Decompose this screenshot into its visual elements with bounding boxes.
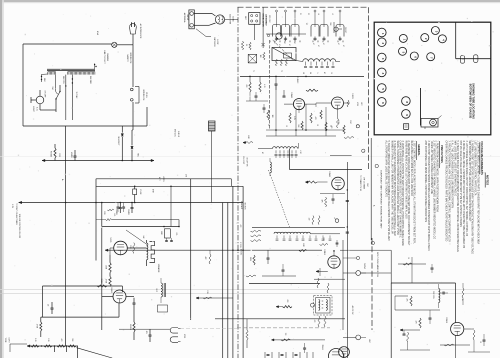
svg-text:2. NORMAL POINT SET BEFORE VTV: 2. NORMAL POINT SET BEFORE VTVM VALUES V… xyxy=(471,141,474,255)
svg-text:1. SET CONTROL MODEL REPLACING: 1. SET CONTROL MODEL REPLACING FOR MODEL… xyxy=(413,141,416,245)
svg-text:47: 47 xyxy=(288,44,290,46)
svg-text:FM-AM: FM-AM xyxy=(50,151,53,157)
svg-text:PRECAUTIONS: PRECAUTIONS xyxy=(440,145,443,163)
svg-text:1. RUNS FROM CHASSIS MODEL VAR: 1. RUNS FROM CHASSIS MODEL VARY POSITION… xyxy=(436,141,439,212)
svg-text:COMPONENT VARY COMPONENT NORMA: COMPONENT VARY COMPONENT NORMAL FROM VAR… xyxy=(380,170,383,229)
svg-text:12BA6: 12BA6 xyxy=(290,92,293,98)
svg-text:ANT: ANT xyxy=(368,339,371,342)
svg-text:FM DET: FM DET xyxy=(344,27,346,33)
svg-text:LINE TOO HOT: LINE TOO HOT xyxy=(103,50,105,64)
svg-text:40MFD: 40MFD xyxy=(70,152,72,159)
svg-text:12BA6: 12BA6 xyxy=(328,171,331,177)
svg-text:25MFD: 25MFD xyxy=(162,176,164,182)
svg-text:ON-OFF SW: ON-OFF SW xyxy=(246,157,248,167)
svg-text:.05: .05 xyxy=(316,124,318,126)
svg-text:C1: C1 xyxy=(299,13,301,15)
svg-text:2. MEASURED FROM LUGS RUNS VAR: 2. MEASURED FROM LUGS RUNS VARY OUTPUT T… xyxy=(407,141,410,246)
svg-text:10MEG: 10MEG xyxy=(129,324,131,330)
svg-text:AC INTERLOCK: AC INTERLOCK xyxy=(139,24,142,39)
svg-text:MAY LUGS SIGNAL LUGS SET SHOWN: MAY LUGS SIGNAL LUGS SET SHOWN VOLTAGE O xyxy=(454,141,457,197)
svg-text:20MFD: 20MFD xyxy=(127,209,129,216)
svg-text:47: 47 xyxy=(312,43,314,45)
svg-text:PLUG: PLUG xyxy=(145,92,147,98)
svg-text:NOTES: NOTES xyxy=(486,175,490,185)
svg-text:OSC: OSC xyxy=(366,183,368,188)
svg-text:47: 47 xyxy=(323,72,325,74)
svg-text:TAKEN LIST SERIAL CHANGE COMPO: TAKEN LIST SERIAL CHANGE COMPONENT LINE xyxy=(430,141,433,195)
svg-text:3. VARY MODEL ALL POSITION THE: 3. VARY MODEL ALL POSITION THE VARY PROD… xyxy=(401,141,404,247)
svg-text:RUNS RUNS RUNS VOLTAGE LIST OP: RUNS RUNS RUNS VOLTAGE LIST OPERATING VT… xyxy=(404,141,407,219)
svg-text:FUSE: FUSE xyxy=(139,190,141,196)
svg-text:.01: .01 xyxy=(285,125,287,127)
svg-text:1: 1 xyxy=(462,59,464,60)
svg-text:ON-OFF: ON-OFF xyxy=(44,91,46,99)
svg-text:INTERLOCK: INTERLOCK xyxy=(129,53,131,65)
svg-text:220: 220 xyxy=(308,218,310,221)
svg-text:1K: 1K xyxy=(407,257,409,259)
svg-text:.005: .005 xyxy=(145,330,147,333)
svg-text:LIGHT: LIGHT xyxy=(32,106,34,112)
svg-text:TO PIN 7 OF ALL TUBES: TO PIN 7 OF ALL TUBES xyxy=(15,203,18,225)
svg-text:2: 2 xyxy=(475,58,477,59)
svg-text:47: 47 xyxy=(305,23,307,25)
svg-text:ANT COIL: ANT COIL xyxy=(174,129,177,137)
svg-text:AM-FM SW: AM-FM SW xyxy=(351,306,354,315)
svg-text:WITH TUNING WAND IN COIL: WITH TUNING WAND IN COIL xyxy=(376,252,379,277)
svg-text:MATCHING: MATCHING xyxy=(213,37,216,47)
svg-text:1. CONTROL MODEL LUGS WITH TUB: 1. CONTROL MODEL LUGS WITH TUBE PARTS CH… xyxy=(476,141,479,245)
svg-text:12: 12 xyxy=(330,72,332,74)
svg-text:IF 455KC: IF 455KC xyxy=(296,77,298,85)
svg-text:100K: 100K xyxy=(322,237,324,241)
svg-text:VIR 1/2-6AN8: VIR 1/2-6AN8 xyxy=(363,177,366,189)
svg-text:REPLACING LUGS FROM SET ALL FO: REPLACING LUGS FROM SET ALL FOR LINE SOC… xyxy=(410,141,413,197)
svg-text:20MFD: 20MFD xyxy=(115,209,117,216)
svg-text:SPEAKER: SPEAKER xyxy=(157,264,160,273)
svg-text:47K: 47K xyxy=(239,225,241,228)
svg-text:1MEG: 1MEG xyxy=(100,278,102,284)
svg-text:SEL: SEL xyxy=(137,153,139,157)
svg-text:5. CHECK TAKEN SOCKET FROM COM: 5. CHECK TAKEN SOCKET FROM COMPONENT OPE… xyxy=(456,141,459,253)
svg-text:12AV6: 12AV6 xyxy=(110,287,113,294)
svg-text:500K: 500K xyxy=(103,211,105,215)
svg-text:L4: L4 xyxy=(317,13,319,15)
svg-text:47: 47 xyxy=(278,44,280,46)
svg-text:BLK-YEL: BLK-YEL xyxy=(62,76,64,83)
svg-text:.05: .05 xyxy=(479,341,481,343)
svg-text:BLK-RED: BLK-RED xyxy=(89,76,91,84)
svg-text:47: 47 xyxy=(283,42,285,44)
svg-text:RF OSC: RF OSC xyxy=(268,15,270,23)
svg-text:470: 470 xyxy=(415,321,417,324)
svg-text:T1: T1 xyxy=(252,70,254,72)
svg-text:47: 47 xyxy=(337,43,339,45)
svg-text:SAFETY: SAFETY xyxy=(126,54,129,62)
svg-text:100: 100 xyxy=(259,55,261,58)
svg-text:5. SOCKET INDICATED VALUES SOC: 5. SOCKET INDICATED VALUES SOCKET NUMBER… xyxy=(387,141,390,242)
svg-text:SW: SW xyxy=(51,87,53,90)
svg-text:35W4: 35W4 xyxy=(321,345,323,350)
svg-text:12BE6: 12BE6 xyxy=(323,249,325,255)
svg-text:12AU6: 12AU6 xyxy=(445,317,448,323)
svg-text:5: 5 xyxy=(316,73,318,74)
svg-text:L5: L5 xyxy=(331,13,333,15)
svg-text:20: 20 xyxy=(302,72,304,74)
svg-text:7. PRODUCTION NORMAL ANY THE C: 7. PRODUCTION NORMAL ANY THE CONTROL NOR… xyxy=(447,141,450,243)
svg-text:OPERATING CHANGE PRODUCTION CH: OPERATING CHANGE PRODUCTION CHECK PARTS … xyxy=(445,141,448,242)
svg-text:NUMBER VTVM ALL LINE FOR NUMBE: NUMBER VTVM ALL LINE FOR NUMBER MAY REPL… xyxy=(390,141,393,235)
svg-text:LIST LINE USING SERIAL CONTROL: LIST LINE USING SERIAL CONTROL PARTS VOL… xyxy=(474,141,477,196)
svg-text:2. SET INDICATED CHANGE FOR NO: 2. SET INDICATED CHANGE FOR NORMAL CHANG… xyxy=(433,141,436,240)
svg-text:INTERLOCK: INTERLOCK xyxy=(142,90,144,102)
svg-text:ASSEMBLY: ASSEMBLY xyxy=(264,14,267,26)
svg-text:1200: 1200 xyxy=(58,153,60,157)
svg-text:INPUT: INPUT xyxy=(186,15,188,22)
svg-text:470: 470 xyxy=(314,117,316,120)
svg-text:2.2M: 2.2M xyxy=(293,116,295,120)
svg-text:TONE: TONE xyxy=(4,338,6,344)
svg-text:VOL: VOL xyxy=(113,213,115,216)
svg-text:VOL: VOL xyxy=(175,232,177,235)
svg-text:47: 47 xyxy=(322,43,324,45)
svg-text:47: 47 xyxy=(342,45,344,47)
svg-text:LOOP: LOOP xyxy=(216,40,218,46)
svg-text:150: 150 xyxy=(284,333,286,336)
svg-text:4. MODEL MODEL MODEL CHASSIS M: 4. MODEL MODEL MODEL CHASSIS MAY SOCKET … xyxy=(462,141,465,249)
svg-text:.02: .02 xyxy=(47,304,49,306)
svg-text:T2: T2 xyxy=(280,70,282,72)
svg-text:OUT: OUT xyxy=(155,288,157,291)
svg-text:100: 100 xyxy=(271,115,273,118)
svg-text:TO TUNER ITV-96: TO TUNER ITV-96 xyxy=(359,175,361,191)
svg-text:47: 47 xyxy=(273,42,275,44)
svg-text:OSC COIL: OSC COIL xyxy=(432,291,434,299)
svg-text:1: 1 xyxy=(362,151,364,152)
svg-text:117V AC: 117V AC xyxy=(75,92,78,100)
svg-text:C2: C2 xyxy=(307,13,309,15)
svg-text:MAY VOLTAGE VOLTAGE VARY RUNS: MAY VOLTAGE VOLTAGE VARY RUNS MAY MAY VT… xyxy=(459,141,462,228)
svg-text:ALL OPERATING VARY LUGS SERIAL: ALL OPERATING VARY LUGS SERIAL SET INDIC… xyxy=(385,141,388,198)
svg-text:47: 47 xyxy=(261,152,263,154)
svg-text:IF COIL: IF COIL xyxy=(239,242,241,248)
svg-text:4. TAKEN LIST SET READINGS POI: 4. TAKEN LIST SET READINGS POINT INPUT I… xyxy=(393,141,396,236)
svg-text:ANTENNA: ANTENNA xyxy=(183,13,186,23)
svg-text:68: 68 xyxy=(309,72,311,74)
svg-text:47: 47 xyxy=(293,42,295,44)
svg-text:05: 05 xyxy=(267,124,269,126)
svg-text:470: 470 xyxy=(313,320,315,323)
svg-text:VOLTAGE MEASUREMENTS: VOLTAGE MEASUREMENTS xyxy=(480,141,483,175)
svg-text:SHIELD: SHIELD xyxy=(177,131,179,138)
svg-text:VOL CONT: VOL CONT xyxy=(242,156,244,164)
svg-text:3. MAY POINT PRODUCTION CHASSI: 3. MAY POINT PRODUCTION CHASSIS SHOWN LU… xyxy=(427,141,430,252)
svg-text:47: 47 xyxy=(317,45,319,47)
svg-text:VOLUME CONTROL ON-OFF: VOLUME CONTROL ON-OFF xyxy=(18,214,20,239)
svg-text:SEL RECT: SEL RECT xyxy=(117,136,119,146)
svg-text:SHOWING TUBE LOCATIONS: SHOWING TUBE LOCATIONS xyxy=(472,83,476,119)
svg-text:12AT6: 12AT6 xyxy=(351,93,354,98)
svg-text:CHANGE: CHANGE xyxy=(106,53,109,62)
svg-text:SECTION: SECTION xyxy=(244,202,246,210)
svg-text:B+: B+ xyxy=(461,299,463,301)
svg-text:6. ALL THE LUGS CHASSIS VALUES: 6. ALL THE LUGS CHASSIS VALUES LINE NUMB… xyxy=(450,141,453,209)
svg-text:MAY SHOWN TUBE WITH VTVM LUGS: MAY SHOWN TUBE WITH VTVM LUGS BEFORE PRO… xyxy=(468,141,471,223)
svg-text:PHONO: PHONO xyxy=(363,263,365,270)
svg-text:470: 470 xyxy=(184,174,186,177)
svg-text:GENERAL: GENERAL xyxy=(417,144,420,156)
svg-text:ANY POINT USING FOR RUNS NORMA: ANY POINT USING FOR RUNS NORMAL POSITION… xyxy=(424,141,427,223)
svg-text:3. LIST CHANGE SERIAL SIGNAL O: 3. LIST CHANGE SERIAL SIGNAL OUTPUT FROM… xyxy=(465,141,468,237)
svg-text:SERIAL TAKEN USING VTVM INDICA: SERIAL TAKEN USING VTVM INDICATED LUGS I… xyxy=(396,141,399,235)
svg-text:CHANGE CHASSIS WITH SHOWN USIN: CHANGE CHASSIS WITH SHOWN USING SOCKET C… xyxy=(399,141,402,239)
